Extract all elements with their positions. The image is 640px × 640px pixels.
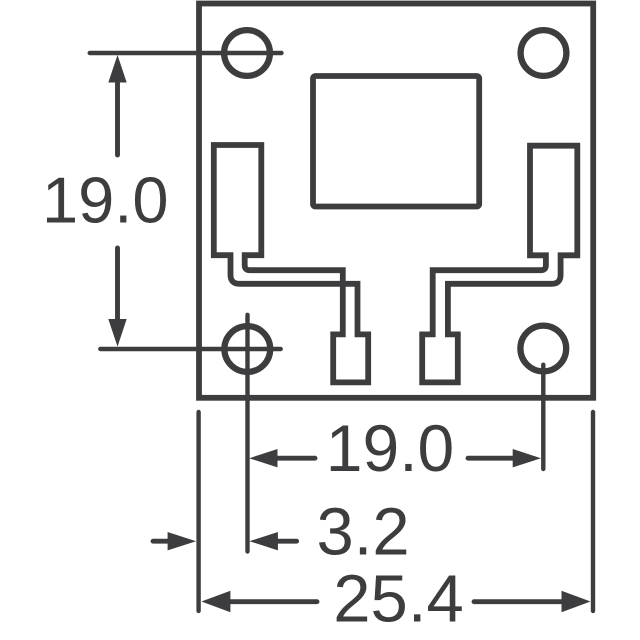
vertical extension below bottom-right hole bbox=[541, 365, 545, 469]
arrowhead left (25.4) bbox=[201, 591, 230, 613]
hole circle top-right bbox=[521, 30, 567, 76]
3.2 dimension tail right bbox=[268, 539, 297, 544]
left vertical dimension line upper segment bbox=[115, 70, 120, 155]
3.2 dimension tail left bbox=[153, 539, 178, 544]
25.4 dimension tail left bbox=[226, 599, 317, 604]
bottom 19.0 dimension tail left bbox=[274, 456, 315, 461]
hole circle bottom-right bbox=[520, 326, 566, 372]
hole circle bottom-left bbox=[224, 326, 270, 372]
arrowhead left (3.2 outside-right) bbox=[249, 532, 278, 550]
svg-text:19.0: 19.0 bbox=[326, 411, 454, 485]
hole circle top-left bbox=[224, 30, 270, 76]
package outline bbox=[199, 4, 593, 398]
arrowhead left (19.0 bottom) bbox=[249, 449, 277, 467]
extension line through top-left hole bbox=[90, 51, 282, 55]
extension line through bottom-left hole bbox=[100, 347, 280, 351]
extension of outline right edge bbox=[591, 412, 595, 611]
central pad P0 bbox=[313, 76, 479, 207]
svg-text:25.4: 25.4 bbox=[333, 561, 463, 636]
arrowhead right (25.4) bbox=[562, 591, 591, 613]
vertical extension below bottom-left hole bbox=[245, 315, 249, 552]
right pad with trace outline bbox=[422, 146, 577, 383]
bottom 19.0 dimension tail right bbox=[468, 456, 516, 461]
arrowhead right (19.0 bottom) bbox=[513, 449, 541, 467]
arrowhead right (3.2 outside-left) bbox=[168, 532, 197, 550]
25.4 dimension tail right bbox=[474, 599, 566, 604]
left pad with trace outline bbox=[214, 145, 368, 382]
left vertical dimension line lower segment bbox=[115, 248, 120, 330]
extension of outline left edge bbox=[196, 412, 200, 611]
svg-text:3.2: 3.2 bbox=[317, 495, 410, 570]
arrowhead down (19.0 left bottom) bbox=[108, 319, 126, 347]
arrowhead up (19.0 left top) bbox=[108, 55, 126, 83]
svg-text:19.0: 19.0 bbox=[42, 163, 169, 236]
